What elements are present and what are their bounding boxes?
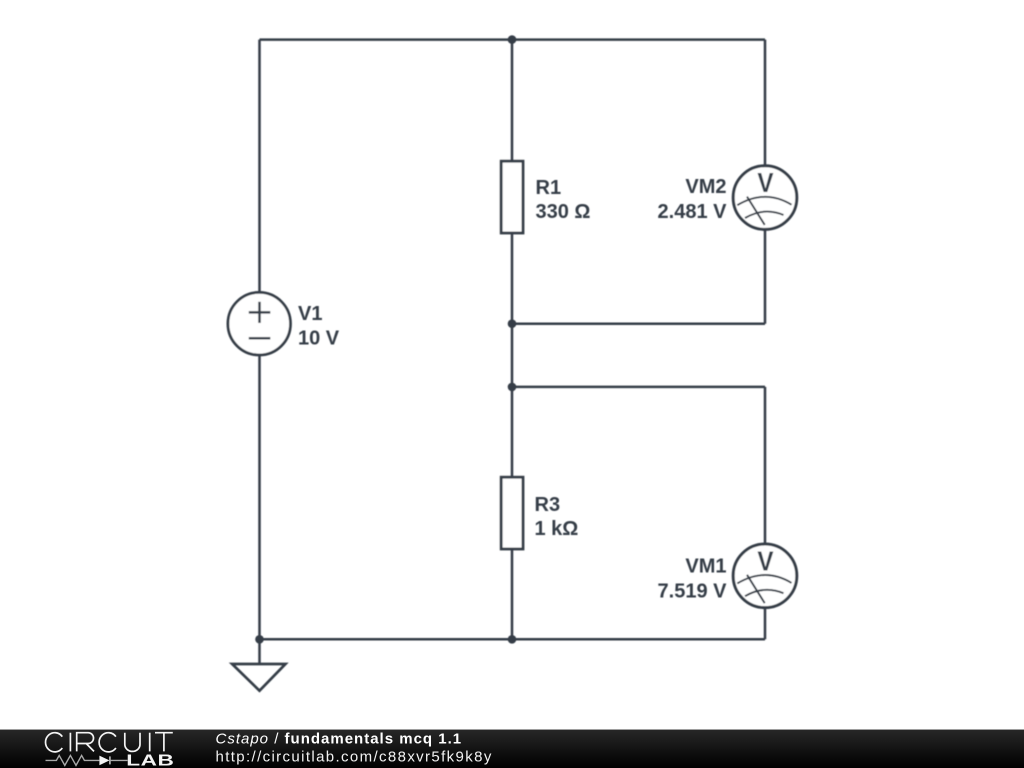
svg-text:2.481 V: 2.481 V (658, 201, 728, 223)
svg-text:7.519 V: 7.519 V (658, 580, 728, 602)
wire ground stem (258, 639, 261, 664)
svg-text:V: V (757, 547, 774, 577)
node junction between R3 and VM1 (508, 383, 517, 392)
svg-text:10 V: 10 V (298, 328, 340, 350)
wire middle rail node B to VM2 bottom (512, 322, 765, 325)
svg-text:http://circuitlab.com/c88xvr5f: http://circuitlab.com/c88xvr5fk9k8y (216, 749, 493, 766)
svg-text:R3: R3 (535, 494, 561, 516)
node junction top rail (508, 35, 517, 44)
voltmeter VM2 (733, 166, 797, 230)
voltmeter VM1 (733, 544, 797, 608)
node junction between R1 and VM2 (508, 319, 517, 328)
wire middle vertical through R1 and R3 (511, 40, 514, 640)
wire top rail from V1 top to VM2 top (260, 38, 766, 41)
svg-text:330 Ω: 330 Ω (536, 201, 591, 223)
CircuitLab logo word CIRCUIT (46, 733, 173, 752)
svg-text:1 kΩ: 1 kΩ (535, 518, 579, 540)
node junction bottom rail center (508, 635, 517, 644)
ground (232, 664, 285, 691)
svg-text:V: V (757, 169, 774, 199)
svg-text:Cstapo / fundamentals mcq 1.1: Cstapo / fundamentals mcq 1.1 (216, 731, 463, 748)
voltage source V1 (228, 292, 291, 355)
CircuitLab logo schematic squiggle (resistor and diode) (46, 755, 128, 765)
svg-text:V1: V1 (298, 303, 322, 325)
wire left vertical through V1 (258, 40, 261, 640)
node junction bottom rail left at ground (255, 635, 264, 644)
svg-text:VM1: VM1 (685, 556, 726, 578)
wire right vertical through VM1 (764, 387, 767, 639)
resistor R1 (501, 161, 523, 233)
wire right vertical through VM2 (764, 40, 767, 324)
wire middle rail node C to VM1 top (512, 386, 765, 389)
svg-text:VM2: VM2 (685, 176, 726, 198)
wire bottom rail ground net (260, 638, 766, 641)
svg-text:R1: R1 (536, 177, 562, 199)
footer bar (0, 730, 1024, 768)
svg-text:LAB: LAB (126, 752, 174, 768)
resistor R3 (501, 477, 523, 549)
